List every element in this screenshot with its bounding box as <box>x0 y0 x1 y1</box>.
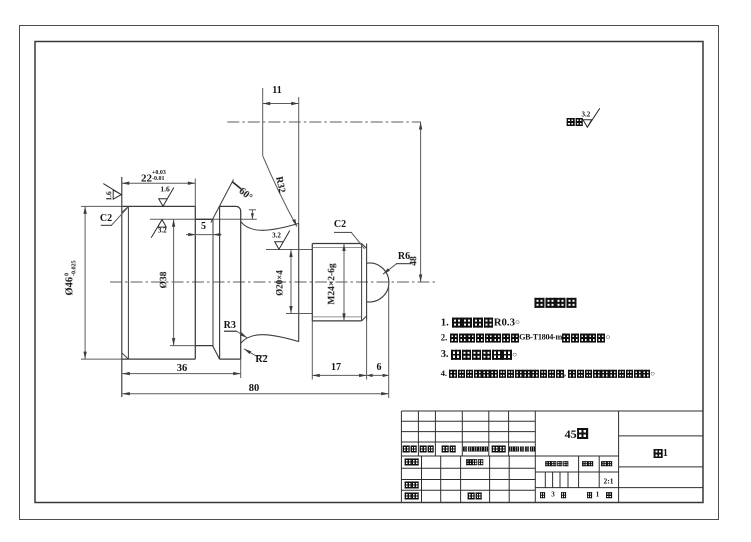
finish label 1.6 (Ø46 top) <box>160 186 169 194</box>
scale column line <box>598 456 600 488</box>
R2 leader line <box>244 349 268 356</box>
label 处数 <box>420 445 435 452</box>
text 1 <box>596 491 600 498</box>
chamfer C2 top diagonal <box>122 206 129 212</box>
finish label 3.2 (groove) <box>272 233 281 240</box>
thread M24 crest bottom <box>312 320 361 322</box>
C2 chamfer leader (right) <box>334 232 365 248</box>
surface finish 3.2 symbol (groove) <box>275 231 290 250</box>
title block column line <box>508 411 510 456</box>
extension line dim 36 right <box>240 359 242 378</box>
R6 leader line <box>383 264 411 274</box>
dim text 48 (rotated) <box>410 256 420 266</box>
extension line dim 17/6 boundary <box>366 321 368 380</box>
label 阶段标记 <box>545 461 568 467</box>
collar bottom edge <box>220 358 241 360</box>
dimension 17/6 line <box>312 374 388 376</box>
extension line for Ø46 dim (top) <box>81 205 122 207</box>
depth 1 tick bar <box>249 209 256 211</box>
dim text R2 <box>255 355 267 365</box>
title block row line <box>535 487 703 489</box>
60° cone top edge with extension <box>211 180 234 223</box>
dim 80 left arrow <box>122 392 130 395</box>
thread chamfer start line <box>361 244 363 321</box>
dim text R32 <box>272 176 285 194</box>
title block column line <box>440 456 442 503</box>
thread M24 root bottom (thin) <box>312 316 361 318</box>
title block row line <box>401 455 618 457</box>
dim text 22 +0.03/-0.01 <box>141 170 166 184</box>
label 比例 <box>601 461 613 467</box>
title block column line <box>417 411 419 456</box>
dimension 22 line <box>122 182 196 184</box>
heading 技术要求 <box>534 298 577 308</box>
label 更改文件号 <box>463 447 489 452</box>
label 年、月、日 <box>509 447 535 452</box>
dim Ø20 top arrow <box>289 250 292 258</box>
finish label 3.2 (inverted) <box>158 228 167 235</box>
extension line dim 11 right <box>298 97 300 223</box>
dimension 36 line <box>122 373 240 375</box>
req line 2: 未标注尺寸公差按GB-T1804-m加工和检验 <box>441 334 611 343</box>
dim 17 left arrow <box>312 374 320 377</box>
title block column line <box>460 456 462 503</box>
dim text 36 <box>177 364 188 375</box>
req line 3: 圆弧过渡光滑 <box>441 350 517 360</box>
title text 件1 (part 1) <box>653 449 668 459</box>
thread chamfer C2 top diagonal <box>362 244 367 249</box>
title block row line <box>401 479 535 481</box>
dim 6 left arrow <box>367 374 373 377</box>
label 工艺 <box>404 493 419 500</box>
dim 48 top arrow <box>419 122 422 130</box>
label 批准 <box>468 493 483 500</box>
title block row line <box>401 489 535 491</box>
label 标记 <box>403 445 418 452</box>
extension line for Ø38 dim (bottom) <box>170 345 195 347</box>
dim 6 right arrow <box>383 374 389 377</box>
step face Ø46 to Ø38 <box>194 206 196 359</box>
Ø38 top extension/reference line <box>150 218 257 220</box>
dim text C2 left <box>100 214 112 224</box>
extension line dim 17 left <box>311 321 313 380</box>
dim 22 left arrow <box>122 182 130 185</box>
text 张 <box>561 492 567 498</box>
chamfer C2 edge line <box>127 206 129 359</box>
Ø46 top edge <box>122 205 196 207</box>
label 设计 <box>404 459 419 466</box>
title block row line <box>401 420 535 422</box>
dimension 11 line <box>263 103 299 105</box>
label 重量 <box>582 461 594 467</box>
req line 1: 锐边倒角R0.3 <box>441 317 520 328</box>
thread M24 root top (thin) <box>312 247 361 249</box>
R32 leader line <box>263 156 297 227</box>
dimension Ø38 line <box>173 219 175 345</box>
reference dash-dot line for dim 48 <box>227 121 421 123</box>
dim text 11 <box>272 86 281 96</box>
inner border frame <box>35 42 703 503</box>
R6 leader arrow <box>383 268 390 274</box>
underline C2 left <box>101 225 112 226</box>
dim 22 right arrow <box>188 182 196 185</box>
req line 4: 所有表面均为直接车加工后表面，不得再用其它方法抛光 <box>441 370 655 378</box>
dimension 48 line <box>420 122 422 282</box>
title block right divider <box>618 411 620 503</box>
R32 neck curve top <box>241 222 299 231</box>
depth 1 tick line <box>251 210 253 220</box>
dim 48 bottom arrow <box>419 275 422 283</box>
title block right section line <box>619 466 703 468</box>
stage mark box line <box>559 472 561 488</box>
surface finish 1.6 symbol (rotated, left face) <box>103 184 121 200</box>
dim 11 right arrow <box>291 102 299 105</box>
R2 leader arrow <box>244 349 251 354</box>
label 分区 <box>442 445 457 452</box>
title block column line <box>489 456 491 503</box>
extension line for Ø46 dim (bottom) <box>81 358 122 360</box>
title block row line <box>401 441 535 443</box>
C2 chamfer leader (left) <box>101 207 129 225</box>
text 张 <box>606 492 612 498</box>
dim text R6 <box>398 252 410 262</box>
collar top edge with corner radius <box>220 206 241 211</box>
thread M24 crest top <box>312 243 361 245</box>
title block top edge <box>401 410 703 412</box>
label 签名 <box>491 445 506 452</box>
dim Ø46 top arrow <box>83 206 86 214</box>
dim text 60 degrees <box>236 187 253 204</box>
surface finish 3.2 symbol (rest/其余) <box>583 108 600 127</box>
R3 leader line <box>224 331 247 338</box>
finish label 1.6 (rotated, left face) <box>105 191 113 200</box>
extension line dim 11 left <box>262 88 264 156</box>
dim 36 right arrow <box>233 372 241 375</box>
title block column line <box>434 411 436 456</box>
dim Ø38 bottom arrow <box>172 338 175 346</box>
dim 5 left arrow <box>188 233 196 236</box>
extension line dim 22 right <box>194 179 196 207</box>
Ø46 bottom edge <box>122 358 196 360</box>
dim text Ø46 0/-0.025 (rotated) <box>64 260 77 295</box>
label 审核 <box>404 481 419 488</box>
title block column line <box>488 411 490 456</box>
underline R6 <box>396 263 411 264</box>
dimension 80 line <box>122 393 388 395</box>
underline R3 <box>224 331 237 332</box>
dim 36 left arrow <box>122 372 130 375</box>
dim Ø46 bottom arrow <box>83 352 86 360</box>
label 标准化 <box>466 460 484 466</box>
dim Ø20 bottom arrow <box>289 306 292 314</box>
groove Ø20 left wall <box>298 223 300 341</box>
dim 17 right arrow <box>359 374 367 377</box>
underline C2 right <box>334 232 352 233</box>
shaft left end face (x=121.8) <box>121 177 123 397</box>
dim 80 right arrow <box>381 392 389 395</box>
label 其余 (rest) <box>567 118 584 126</box>
surface finish 1.6 symbol (Ø46 top) <box>159 188 174 207</box>
title block stage row line <box>535 471 618 473</box>
title text 45钢 (material) <box>565 428 589 440</box>
text 第 <box>587 492 593 498</box>
cone start edge line <box>212 219 214 345</box>
dimension Ø46 line <box>84 206 86 359</box>
dim M24 top arrow <box>342 244 345 252</box>
dim text R3 <box>224 321 236 331</box>
stage mark box line <box>544 472 546 488</box>
R6 spherical end arc <box>367 263 389 302</box>
dim text 5 <box>201 222 206 232</box>
title block left edge <box>400 411 402 503</box>
thread chamfer C2 bottom diagonal <box>362 316 367 321</box>
dimension 5 line <box>186 234 222 236</box>
extension line dim 80/6 right <box>388 287 390 398</box>
dim M24 bottom arrow <box>342 313 345 321</box>
R32 neck curve bottom <box>241 335 299 344</box>
title block row line <box>401 467 535 469</box>
60° dimension leader stroke <box>233 182 242 189</box>
stage mark box line <box>552 472 554 488</box>
Ø38 bottom edge <box>195 345 212 347</box>
title block middle divider <box>534 411 536 503</box>
title block column line <box>421 456 423 503</box>
collar left face <box>219 206 221 359</box>
title block column line <box>461 411 463 456</box>
dim 5 right arrow <box>213 233 221 236</box>
chamfer C2 bottom diagonal <box>122 353 129 359</box>
dim text M24X2-6g (rotated) <box>328 263 338 304</box>
R32 leader arrow <box>292 219 297 227</box>
stage mark box line <box>567 472 569 488</box>
collar right face <box>240 211 242 359</box>
thread end face <box>366 244 368 321</box>
dim text 17 <box>331 363 341 373</box>
title block right section line <box>619 435 703 437</box>
dim Ø38 top arrow <box>172 219 175 227</box>
thread section left face <box>311 244 313 321</box>
part axis centerline <box>110 281 438 283</box>
dimension M24X2-6g line <box>343 244 345 321</box>
dim text 80 <box>249 383 260 394</box>
groove Ø20 bottom surface/extension <box>286 313 312 315</box>
groove Ø20 top surface/extension <box>266 249 312 251</box>
weight column line <box>578 456 580 488</box>
dim text 6 <box>377 363 382 373</box>
dimension Ø20X4 line <box>290 250 292 314</box>
dim 11 left arrow <box>263 102 271 105</box>
title block column line <box>508 456 510 503</box>
dim text Ø20X4 (rotated) <box>275 270 284 296</box>
Ø38 top edge <box>195 218 213 220</box>
depth 1 tick arrow <box>251 213 254 219</box>
R3 leader arrow <box>240 332 247 338</box>
dim text C2 right <box>334 220 346 230</box>
dim text Ø38 (rotated) <box>160 272 170 289</box>
text 2:1 <box>604 477 614 485</box>
text 3 <box>551 491 555 498</box>
finish label 3.2 (rest) <box>582 111 591 118</box>
60° cone bottom edge <box>213 346 220 360</box>
surface finish 3.2 symbol (inverted, Ø38) <box>151 220 166 238</box>
text 共 <box>540 492 546 498</box>
title block row line <box>401 431 535 433</box>
